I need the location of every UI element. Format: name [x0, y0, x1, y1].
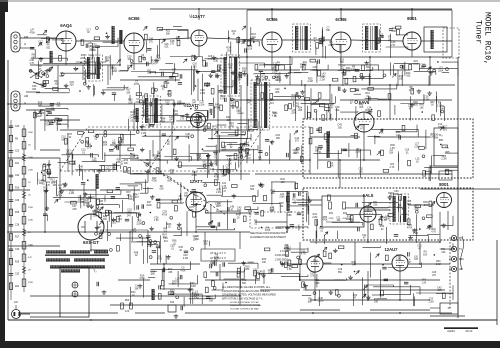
svg-text:C22: C22: [275, 88, 280, 91]
svg-text:.047: .047: [261, 79, 266, 81]
svg-text:.047: .047: [351, 265, 356, 267]
svg-text:R11: R11: [273, 68, 278, 71]
svg-text:R27: R27: [238, 153, 243, 156]
svg-text:C48: C48: [161, 118, 166, 121]
svg-text:33K: 33K: [217, 206, 222, 208]
svg-text:R25: R25: [279, 202, 284, 205]
svg-text:4.7K: 4.7K: [390, 167, 395, 169]
svg-text:C40: C40: [200, 89, 205, 92]
svg-text:C34: C34: [192, 171, 197, 174]
svg-text:.047: .047: [423, 205, 428, 207]
svg-text:C31: C31: [222, 182, 227, 185]
svg-text:C21: C21: [93, 212, 98, 215]
svg-text:2.2M: 2.2M: [69, 193, 74, 195]
svg-text:R17: R17: [168, 268, 173, 271]
svg-text:68K: 68K: [288, 215, 293, 217]
svg-text:10K: 10K: [103, 219, 108, 221]
svg-text:.047: .047: [246, 158, 251, 160]
svg-text:56K: 56K: [338, 272, 343, 274]
svg-text:C33: C33: [414, 205, 419, 208]
svg-text:1.5K: 1.5K: [165, 83, 170, 85]
svg-text:C19: C19: [405, 149, 410, 152]
svg-text:R41: R41: [313, 213, 318, 216]
svg-text:1K: 1K: [232, 34, 235, 36]
svg-text:R13: R13: [236, 107, 241, 110]
svg-text:C21: C21: [408, 105, 413, 108]
svg-text:1.5K: 1.5K: [185, 137, 190, 139]
svg-text:C22: C22: [321, 37, 326, 40]
svg-text:1.5K: 1.5K: [194, 298, 199, 300]
svg-text:2.2M: 2.2M: [173, 114, 178, 116]
svg-text:R₁₇: R₁₇: [439, 133, 443, 137]
svg-text:C26: C26: [15, 200, 20, 202]
svg-text:C23: C23: [110, 64, 115, 67]
svg-text:2.2M: 2.2M: [428, 301, 433, 303]
svg-text:C30: C30: [170, 245, 175, 248]
svg-text:C25: C25: [127, 55, 132, 58]
svg-text:C₃₁: C₃₁: [445, 145, 449, 149]
svg-text:470K: 470K: [131, 232, 137, 234]
svg-text:R43: R43: [80, 198, 85, 201]
svg-text:2.2M: 2.2M: [391, 31, 396, 33]
svg-text:220K: 220K: [328, 218, 334, 220]
svg-text:2.2M: 2.2M: [183, 258, 188, 260]
svg-text:R27: R27: [40, 109, 45, 112]
svg-text:R31: R31: [176, 36, 181, 39]
svg-text:56K: 56K: [250, 189, 255, 191]
svg-text:L25: L25: [132, 228, 137, 231]
svg-text:R47: R47: [134, 193, 139, 196]
svg-text:33K: 33K: [203, 129, 208, 131]
svg-text:ALIGNMENT AND ADJUSTMENT: ALIGNMENT AND ADJUSTMENT: [250, 236, 287, 239]
svg-text:G: G: [24, 101, 26, 105]
svg-text:R48: R48: [413, 101, 418, 104]
svg-text:R21: R21: [15, 286, 20, 288]
svg-text:R48: R48: [300, 63, 305, 66]
svg-text:C33: C33: [173, 110, 178, 113]
svg-text:.005: .005: [202, 164, 207, 166]
svg-text:.001: .001: [140, 58, 145, 60]
svg-text:R42: R42: [242, 279, 247, 282]
svg-text:.005: .005: [406, 76, 411, 78]
svg-text:C20: C20: [208, 55, 213, 58]
svg-text:C44: C44: [39, 179, 44, 182]
svg-text:33K: 33K: [389, 153, 394, 155]
svg-text:R21: R21: [414, 60, 419, 63]
svg-text:.001: .001: [214, 164, 219, 166]
svg-text:33K: 33K: [70, 85, 75, 87]
svg-text:R29: R29: [38, 101, 43, 104]
svg-text:1.5K: 1.5K: [287, 269, 292, 271]
svg-text:1K: 1K: [87, 32, 90, 34]
svg-text:220K: 220K: [112, 71, 118, 73]
svg-text:.047: .047: [134, 197, 139, 199]
svg-text:FM: FM: [24, 35, 29, 39]
svg-text:33K: 33K: [262, 262, 267, 264]
svg-text:220K: 220K: [80, 58, 86, 60]
svg-text:4.7K: 4.7K: [213, 61, 218, 63]
svg-text:2.2M: 2.2M: [272, 71, 277, 73]
svg-text:2.2M: 2.2M: [312, 217, 317, 219]
svg-text:.001: .001: [118, 219, 123, 221]
svg-text:2.2M: 2.2M: [346, 71, 351, 73]
svg-text:C21: C21: [315, 279, 320, 282]
svg-text:1.5K: 1.5K: [177, 104, 182, 106]
svg-text:C15: C15: [70, 81, 75, 84]
svg-text:L27: L27: [415, 143, 420, 146]
svg-text:C30: C30: [169, 116, 174, 119]
svg-text:1.5K: 1.5K: [154, 220, 159, 222]
svg-text:220K: 220K: [258, 274, 264, 276]
svg-text:4.7K: 4.7K: [208, 59, 213, 61]
svg-text:L23: L23: [439, 67, 444, 70]
svg-text:C16: C16: [164, 43, 169, 46]
svg-text:220K: 220K: [43, 190, 49, 192]
svg-text:470K: 470K: [407, 228, 413, 230]
svg-text:C27: C27: [72, 205, 77, 208]
svg-text:.005: .005: [275, 138, 280, 140]
svg-text:10K: 10K: [167, 94, 172, 96]
svg-text:R12: R12: [340, 58, 345, 61]
svg-text:.001: .001: [226, 50, 231, 52]
svg-text:.005: .005: [222, 73, 227, 75]
svg-text:C25: C25: [407, 224, 412, 227]
svg-text:C38: C38: [170, 40, 175, 43]
svg-text:.001: .001: [202, 209, 207, 211]
svg-text:R40: R40: [419, 104, 424, 107]
svg-text:.001: .001: [211, 264, 216, 266]
svg-text:.005: .005: [359, 107, 364, 109]
svg-text:10K: 10K: [276, 65, 281, 67]
svg-text:470K: 470K: [215, 108, 221, 110]
svg-text:.047: .047: [162, 237, 167, 239]
svg-text:2.2M: 2.2M: [216, 192, 221, 194]
svg-text:C18: C18: [292, 149, 297, 152]
svg-text:C23: C23: [214, 160, 219, 163]
svg-text:10K: 10K: [423, 254, 428, 256]
svg-text:220K: 220K: [238, 156, 244, 158]
svg-text:10K: 10K: [231, 103, 236, 105]
svg-text:C43: C43: [237, 206, 242, 209]
svg-text:220K: 220K: [28, 207, 34, 209]
svg-text:½12AT7: ½12AT7: [189, 14, 205, 19]
svg-text:R19: R19: [124, 159, 129, 162]
svg-text:R28: R28: [118, 141, 123, 144]
svg-text:C47: C47: [172, 69, 177, 72]
svg-text:.001: .001: [163, 241, 168, 243]
svg-text:Tuner: Tuner: [474, 20, 483, 44]
svg-text:R30: R30: [248, 210, 253, 213]
svg-text:220K: 220K: [28, 220, 34, 222]
svg-text:R37: R37: [54, 80, 59, 83]
svg-text:.005: .005: [128, 103, 133, 105]
svg-text:R23: R23: [170, 290, 175, 293]
svg-text:2.2M: 2.2M: [414, 146, 419, 148]
svg-text:R22: R22: [262, 76, 267, 79]
svg-text:C22: C22: [203, 125, 208, 128]
svg-text:100K: 100K: [28, 132, 34, 134]
svg-text:2.2M: 2.2M: [413, 233, 418, 235]
svg-text:C23: C23: [89, 46, 94, 49]
svg-text:R41: R41: [273, 112, 278, 115]
svg-text:.001: .001: [275, 80, 280, 82]
svg-text:R45: R45: [222, 69, 227, 72]
svg-text:68K: 68K: [439, 138, 444, 142]
svg-text:C44: C44: [237, 76, 242, 79]
svg-text:1.5K: 1.5K: [396, 258, 401, 260]
svg-text:R14: R14: [347, 215, 352, 218]
svg-text:4.7K: 4.7K: [178, 199, 183, 201]
svg-text:R15: R15: [15, 212, 20, 214]
svg-text:R38: R38: [396, 131, 401, 134]
svg-text:R10: R10: [292, 94, 297, 97]
svg-text:1.2K: 1.2K: [125, 311, 130, 313]
svg-text:L45: L45: [88, 42, 93, 45]
svg-text:C21: C21: [197, 155, 202, 158]
svg-text:.005: .005: [298, 110, 303, 112]
svg-text:R31: R31: [329, 213, 334, 215]
svg-text:L26: L26: [231, 99, 236, 102]
svg-text:R43: R43: [270, 189, 275, 192]
svg-text:4.7K: 4.7K: [301, 253, 306, 255]
svg-text:.001: .001: [72, 164, 77, 166]
svg-text:1K: 1K: [296, 106, 299, 108]
svg-text:56K: 56K: [172, 284, 177, 286]
svg-text:R18: R18: [251, 33, 256, 36]
svg-text:R44: R44: [103, 215, 108, 218]
svg-text:R41: R41: [100, 229, 105, 232]
svg-text:R30: R30: [308, 77, 313, 80]
svg-text:56K: 56K: [166, 34, 171, 36]
svg-text:R26: R26: [388, 192, 393, 195]
svg-text:C24: C24: [192, 293, 197, 296]
svg-text:.047: .047: [407, 262, 412, 264]
svg-text:470K: 470K: [57, 196, 63, 198]
svg-text:C39: C39: [335, 106, 340, 109]
svg-text:220K: 220K: [244, 145, 250, 147]
svg-text:470K: 470K: [152, 181, 158, 183]
svg-text:68K: 68K: [105, 60, 110, 62]
svg-text:R11: R11: [147, 69, 152, 72]
svg-text:10K: 10K: [124, 163, 129, 165]
svg-text:470K: 470K: [192, 175, 198, 177]
svg-text:R50: R50: [125, 299, 130, 302]
svg-text:R37: R37: [360, 125, 365, 128]
svg-text:R24: R24: [226, 47, 231, 50]
svg-text:C45: C45: [30, 59, 35, 62]
svg-text:R41: R41: [382, 216, 387, 219]
svg-text:470K: 470K: [284, 248, 290, 250]
svg-text:R32: R32: [69, 189, 74, 192]
svg-text:R34: R34: [81, 54, 86, 57]
svg-text:C32: C32: [15, 274, 20, 276]
svg-text:R13: R13: [292, 199, 297, 202]
svg-text:1K: 1K: [41, 87, 44, 89]
svg-text:C10: C10: [421, 63, 426, 66]
svg-text:R14: R14: [313, 260, 318, 263]
svg-text:10K: 10K: [420, 108, 425, 110]
svg-text:1K: 1K: [431, 105, 434, 107]
svg-text:C20: C20: [287, 211, 292, 214]
svg-text:R33: R33: [312, 99, 317, 102]
svg-text:220K: 220K: [188, 210, 194, 212]
svg-text:10K: 10K: [271, 193, 276, 195]
svg-text:470K: 470K: [162, 214, 168, 216]
svg-text:.005: .005: [72, 209, 77, 211]
svg-text:R20: R20: [57, 120, 62, 123]
svg-text:R46: R46: [319, 297, 324, 300]
svg-text:C19: C19: [46, 181, 51, 184]
svg-text:R41: R41: [232, 30, 237, 33]
svg-text:C18: C18: [226, 165, 231, 168]
svg-text:.005: .005: [414, 209, 419, 211]
svg-text:C35: C35: [162, 211, 167, 214]
svg-text:R26: R26: [217, 188, 222, 191]
svg-text:R40: R40: [236, 214, 241, 217]
svg-text:47K: 47K: [28, 257, 32, 259]
svg-text:C19: C19: [221, 172, 226, 175]
svg-text:C48: C48: [258, 270, 263, 273]
svg-text:100K: 100K: [28, 245, 34, 247]
svg-text:R15: R15: [72, 160, 77, 163]
svg-text:R40: R40: [215, 104, 220, 107]
svg-text:.047: .047: [222, 150, 227, 152]
svg-text:C25: C25: [268, 269, 273, 272]
svg-text:R19: R19: [15, 261, 20, 263]
svg-text:2.2M: 2.2M: [355, 152, 360, 154]
svg-text:8001: 8001: [439, 182, 449, 187]
svg-text:6CB6: 6CB6: [128, 16, 140, 21]
svg-text:C18: C18: [222, 146, 227, 149]
svg-text:10K: 10K: [329, 166, 334, 168]
svg-text:56K: 56K: [144, 113, 149, 115]
svg-text:C19: C19: [338, 268, 343, 271]
svg-text:C39: C39: [413, 229, 418, 232]
svg-text:R28: R28: [153, 154, 158, 157]
svg-text:R42: R42: [130, 111, 135, 114]
svg-text:4.7K: 4.7K: [431, 232, 436, 234]
svg-text:.005: .005: [315, 283, 320, 285]
svg-text:68K: 68K: [245, 269, 250, 271]
svg-text:C17: C17: [38, 41, 43, 44]
svg-text:220K: 220K: [147, 246, 153, 248]
svg-text:R37: R37: [192, 116, 197, 119]
svg-text:4.7K: 4.7K: [99, 204, 104, 206]
svg-text:R17: R17: [15, 237, 20, 239]
svg-text:C29: C29: [126, 212, 131, 215]
svg-text:C12: C12: [165, 100, 170, 103]
svg-text:33K: 33K: [222, 176, 227, 178]
svg-text:C29: C29: [432, 271, 437, 274]
svg-text:C47: C47: [165, 79, 170, 82]
svg-text:220K: 220K: [279, 197, 285, 199]
svg-text:C45: C45: [52, 181, 57, 184]
svg-text:R26: R26: [45, 121, 50, 124]
svg-text:L47: L47: [330, 104, 335, 107]
svg-text:C28: C28: [15, 224, 20, 226]
svg-text:10K: 10K: [258, 160, 263, 162]
svg-text:220K: 220K: [346, 219, 352, 221]
svg-text:R29: R29: [275, 76, 280, 79]
svg-text:C40: C40: [79, 166, 84, 169]
svg-text:1.5K: 1.5K: [106, 170, 111, 172]
svg-text:R24: R24: [193, 236, 198, 239]
svg-text:C19: C19: [211, 260, 216, 263]
svg-text:R40: R40: [359, 103, 364, 106]
svg-text:56K: 56K: [237, 111, 242, 113]
svg-text:33K: 33K: [399, 79, 404, 81]
svg-text:L20: L20: [94, 135, 99, 138]
svg-text:470K: 470K: [265, 230, 271, 232]
svg-text:220K: 220K: [351, 69, 357, 71]
svg-text:220K: 220K: [291, 113, 297, 115]
svg-text:.005: .005: [226, 120, 231, 122]
svg-text:.047: .047: [169, 120, 174, 122]
svg-text:R15: R15: [179, 246, 184, 249]
svg-text:2.2M: 2.2M: [200, 93, 205, 95]
svg-text:56K: 56K: [215, 77, 220, 79]
svg-text:C34: C34: [310, 272, 315, 275]
svg-text:C44: C44: [440, 105, 445, 108]
svg-text:4.7K: 4.7K: [210, 169, 215, 171]
svg-text:G: G: [24, 42, 26, 46]
svg-text:C11: C11: [301, 250, 306, 253]
svg-text:68K: 68K: [79, 169, 84, 171]
svg-text:R13: R13: [229, 122, 234, 125]
svg-text:.005: .005: [85, 203, 90, 205]
svg-text:220K: 220K: [136, 224, 142, 226]
svg-text:R33: R33: [214, 173, 219, 176]
svg-text:470K: 470K: [180, 270, 186, 272]
svg-text:.005: .005: [413, 105, 418, 107]
svg-text:2.2M: 2.2M: [320, 79, 325, 81]
svg-text:1K: 1K: [388, 39, 391, 41]
svg-text:R36: R36: [87, 144, 92, 147]
svg-text:68K: 68K: [184, 196, 189, 198]
svg-text:C41: C41: [362, 234, 367, 237]
svg-text:SOURCE VOLTAGE 117V AC: SOURCE VOLTAGE 117V AC: [230, 301, 259, 304]
svg-text:1.5K: 1.5K: [409, 90, 414, 92]
svg-text:R34: R34: [380, 225, 385, 228]
svg-text:C44: C44: [141, 129, 146, 132]
svg-text:SEE PAGE FOR FM DETECTOR: SEE PAGE FOR FM DETECTOR: [250, 232, 286, 235]
svg-text:1K: 1K: [274, 116, 277, 118]
svg-text:C48: C48: [318, 148, 323, 151]
svg-text:.005: .005: [41, 174, 46, 176]
svg-text:C13: C13: [295, 137, 300, 140]
svg-text:L40: L40: [223, 187, 228, 190]
svg-text:56K: 56K: [226, 169, 231, 171]
svg-text:L45: L45: [292, 109, 297, 112]
svg-text:R12: R12: [228, 64, 233, 67]
svg-text:C42: C42: [130, 153, 135, 156]
svg-text:1K: 1K: [68, 137, 71, 139]
svg-text:56K: 56K: [308, 301, 313, 303]
svg-text:4.7K: 4.7K: [130, 115, 135, 117]
svg-text:68K: 68K: [61, 140, 66, 142]
svg-text:R43: R43: [353, 294, 358, 297]
svg-text:L34: L34: [156, 55, 161, 58]
svg-text:R26: R26: [374, 298, 379, 301]
svg-text:.005: .005: [437, 290, 442, 292]
svg-text:L34: L34: [270, 206, 275, 209]
svg-text:470K: 470K: [30, 33, 36, 35]
svg-text:R42: R42: [280, 178, 285, 181]
svg-text:R40: R40: [131, 291, 136, 294]
svg-text:C48: C48: [287, 265, 292, 268]
svg-text:220K: 220K: [102, 145, 108, 147]
svg-text:R22: R22: [248, 45, 253, 48]
